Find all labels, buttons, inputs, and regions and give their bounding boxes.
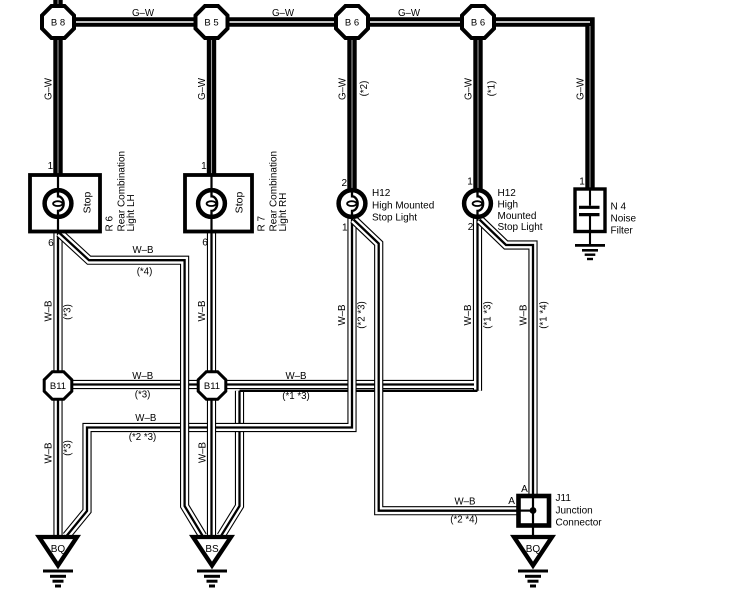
- svg-text:G–W: G–W: [132, 8, 155, 19]
- svg-text:1: 1: [342, 223, 348, 234]
- svg-text:W–B: W–B: [197, 301, 208, 322]
- svg-text:W–B: W–B: [133, 245, 154, 256]
- svg-text:6: 6: [202, 238, 208, 249]
- svg-text:1: 1: [579, 176, 585, 187]
- svg-text:B11: B11: [50, 381, 66, 392]
- svg-text:G–W: G–W: [576, 77, 587, 100]
- svg-text:1: 1: [48, 161, 54, 172]
- svg-text:1: 1: [201, 161, 207, 172]
- svg-text:R 6: R 6: [104, 216, 115, 232]
- svg-text:Light LH: Light LH: [126, 194, 137, 231]
- svg-text:High: High: [498, 200, 519, 211]
- svg-text:G–W: G–W: [44, 77, 55, 100]
- svg-text:(*3): (*3): [63, 304, 74, 320]
- svg-text:W–B: W–B: [43, 443, 54, 464]
- svg-text:J11: J11: [556, 493, 572, 504]
- svg-text:(*1 *4): (*1 *4): [539, 301, 550, 328]
- svg-text:(*1 *3): (*1 *3): [482, 301, 493, 328]
- svg-text:Stop Light: Stop Light: [498, 222, 543, 233]
- svg-text:B11: B11: [204, 381, 220, 392]
- svg-text:Light RH: Light RH: [278, 193, 289, 232]
- svg-text:G–W: G–W: [338, 77, 349, 100]
- svg-text:BQ: BQ: [526, 544, 541, 555]
- svg-text:Stop: Stop: [82, 192, 94, 214]
- svg-text:R 7: R 7: [256, 216, 267, 232]
- svg-text:Junction: Junction: [556, 506, 593, 517]
- svg-text:(*1): (*1): [487, 81, 498, 97]
- svg-text:G–W: G–W: [197, 77, 208, 100]
- svg-text:H12: H12: [498, 188, 517, 199]
- svg-text:BS: BS: [205, 544, 219, 555]
- svg-text:A: A: [521, 484, 528, 495]
- svg-text:W–B: W–B: [286, 371, 307, 382]
- svg-text:(*1 *3): (*1 *3): [282, 391, 309, 402]
- svg-text:W–B: W–B: [463, 305, 474, 326]
- svg-text:Mounted: Mounted: [498, 211, 537, 222]
- svg-text:6: 6: [48, 238, 54, 249]
- svg-text:W–B: W–B: [337, 305, 348, 326]
- svg-text:W–B: W–B: [455, 497, 476, 508]
- svg-text:(*4): (*4): [137, 267, 153, 278]
- svg-text:2: 2: [342, 178, 348, 189]
- svg-text:G–W: G–W: [398, 8, 421, 19]
- svg-text:(*2): (*2): [359, 81, 370, 97]
- svg-text:1: 1: [467, 176, 473, 187]
- svg-text:B 8: B 8: [51, 18, 65, 29]
- svg-text:BQ: BQ: [51, 544, 66, 555]
- svg-text:W–B: W–B: [519, 305, 530, 326]
- svg-text:A: A: [508, 496, 515, 507]
- svg-text:B 5: B 5: [204, 18, 218, 29]
- svg-text:G–W: G–W: [464, 77, 475, 100]
- svg-text:(*2 *3): (*2 *3): [129, 432, 156, 443]
- svg-text:(*3): (*3): [63, 440, 74, 456]
- svg-text:B 6: B 6: [471, 18, 485, 29]
- svg-text:(*2 *4): (*2 *4): [450, 515, 477, 526]
- svg-text:B 6: B 6: [345, 18, 359, 29]
- svg-text:Connector: Connector: [556, 518, 603, 529]
- svg-text:(*3): (*3): [135, 389, 151, 400]
- svg-text:W–B: W–B: [43, 301, 54, 322]
- svg-text:High Mounted: High Mounted: [372, 200, 434, 211]
- svg-text:W–B: W–B: [198, 442, 209, 463]
- svg-text:G–W: G–W: [272, 8, 295, 19]
- svg-text:Noise: Noise: [611, 214, 637, 225]
- svg-text:Filter: Filter: [611, 226, 634, 237]
- svg-text:N 4: N 4: [611, 202, 627, 213]
- svg-text:2: 2: [468, 222, 474, 233]
- svg-text:W–B: W–B: [135, 413, 156, 424]
- svg-text:W–B: W–B: [132, 371, 153, 382]
- svg-text:H12: H12: [372, 188, 391, 199]
- svg-text:(*2 *3): (*2 *3): [356, 301, 367, 328]
- svg-text:Stop: Stop: [234, 192, 246, 214]
- svg-text:Stop Light: Stop Light: [372, 213, 417, 224]
